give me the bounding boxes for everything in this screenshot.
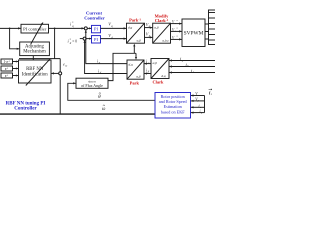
- delay block z^-1 (upper): [1, 66, 13, 71]
- block: RBF NN Identification: [19, 60, 52, 83]
- arrowhead up into Park-1: [133, 44, 135, 47]
- block: sin cos of flux angle: [76, 78, 108, 88]
- wire: i alpha into EKF: [191, 106, 205, 108]
- block: PI current q (blue): [92, 25, 101, 32]
- inverter rung 1: [209, 12, 216, 14]
- arrowhead down into Park: [135, 57, 137, 60]
- summing junction e_omega: [59, 72, 62, 75]
- block: Modify Clark inverse transform: [153, 23, 171, 43]
- wire: V beta into EKF: [191, 100, 205, 102]
- wire: sincos output elbow to transforms: [108, 53, 136, 80]
- svg-text:Controller: Controller: [14, 107, 37, 112]
- arrowhead of adaptation arrow (RBF): [48, 59, 51, 61]
- wire: adjusting to RBF vertical: [32, 56, 34, 60]
- block: PI controller: [21, 24, 49, 33]
- arrowhead ia: [169, 59, 172, 61]
- wire: i alpha Clark to Park: [144, 63, 151, 65]
- wire: PI1 to Park-1 (Vq): [101, 27, 127, 29]
- arrowhead into Adjusting Mechanism: [17, 48, 20, 50]
- wire: d junction to PI2: [86, 38, 91, 40]
- inverter rung 3: [209, 23, 216, 25]
- svg-text:based on EKF: based on EKF: [161, 109, 185, 114]
- arrowhead V beta: [150, 36, 153, 38]
- block: inverter (clipped at edge): [209, 10, 217, 45]
- wire: Vc*: [171, 38, 182, 40]
- svg-text:Controller: Controller: [84, 16, 105, 21]
- wire: theta into sincos box: [68, 83, 155, 100]
- arrowhead V beta EKF: [191, 100, 194, 102]
- wire: i beta into EKF: [191, 112, 205, 114]
- wire: SVPWM to inverter gate 2: [205, 31, 209, 33]
- block: PI current d (blue): [92, 36, 101, 43]
- arrowhead of adaptation arrow (PI): [41, 22, 43, 24]
- block: SVPWM: [182, 19, 205, 47]
- arrowhead ib: [169, 65, 172, 67]
- wire: ib from motor: [169, 66, 215, 68]
- wire: V alpha Park-1 to ModClark: [145, 27, 153, 29]
- svg-text:Identification: Identification: [22, 73, 48, 78]
- block: Park inverse transform: [127, 23, 145, 43]
- arrowhead i alpha: [144, 63, 147, 65]
- arrowhead delay3: [16, 75, 19, 77]
- wire: iq feedback from Park to q junction: [86, 30, 127, 63]
- delay block z^-1 (lower): [1, 73, 13, 78]
- svg-text:PI: PI: [94, 37, 98, 42]
- wire: delay1 to RBF: [13, 61, 19, 63]
- svg-text:Clark: Clark: [153, 80, 165, 85]
- wire: omega hat vertical from error junction: [59, 75, 61, 114]
- wire: down to error junction: [59, 59, 61, 72]
- inverter rung 6: [209, 39, 216, 41]
- arrowhead V alpha EKF: [191, 94, 194, 96]
- block: Adjusting Mechanism: [20, 42, 50, 56]
- summing junction q-axis: [84, 27, 87, 30]
- wire: SVPWM to inverter gate 3: [205, 38, 209, 40]
- adaptation arrow through RBF NN: [26, 59, 50, 85]
- svg-text:PI: PI: [94, 27, 98, 32]
- arrowhead Va*: [179, 23, 182, 25]
- arrowhead delay2: [16, 68, 19, 70]
- arrowhead id into d junction: [84, 40, 86, 43]
- wire: q junction to PI1: [87, 27, 91, 29]
- arrowhead into PI controller: [18, 27, 21, 29]
- arrowhead Vc*: [179, 38, 182, 40]
- wire: speed error input: [0, 27, 21, 29]
- svg-text:= 0: = 0: [72, 39, 77, 43]
- arrowhead i alpha EKF: [191, 106, 194, 108]
- summing junction d-axis: [83, 37, 86, 40]
- wire: delay3 to RBF: [13, 75, 19, 77]
- arrowhead into RBF right: [51, 72, 54, 74]
- arrowhead i beta EKF: [191, 112, 194, 114]
- arrowhead theta into sincos: [73, 82, 76, 84]
- wire: branch to Adjusting Mechanism: [10, 28, 20, 48]
- inverter rung 5: [209, 34, 216, 36]
- wire: u tap down: [54, 28, 56, 58]
- wire: id feedback from Park to d junction: [85, 40, 127, 73]
- wire: Vb*: [171, 30, 182, 32]
- wire: V beta Park-1 to ModClark: [145, 36, 153, 38]
- svg-text:RBF NN: RBF NN: [26, 67, 44, 72]
- wire: delay2 to RBF: [13, 68, 19, 70]
- arrowhead V alpha: [150, 27, 153, 29]
- wire: PI2 to Park-1 (Vd): [101, 38, 127, 40]
- wire: omega hat feedback line: [0, 113, 155, 115]
- svg-text:s: s: [211, 93, 212, 96]
- svg-text:Mechanism: Mechanism: [23, 50, 46, 55]
- arrowhead i beta: [144, 72, 147, 74]
- arrowhead Vd into Park-1: [124, 38, 127, 40]
- svg-text:ω: ω: [65, 65, 67, 68]
- svg-text:SVPWM: SVPWM: [184, 31, 204, 37]
- wire: iq* from PI controller to q summing junction: [49, 27, 85, 29]
- inverter rung 4: [209, 28, 216, 30]
- svg-text:sincos: sincos: [88, 79, 96, 83]
- wire: error into RBF NN: [52, 72, 59, 74]
- delay block 1-z^-1: [1, 59, 13, 64]
- node: u tap junction: [54, 28, 56, 30]
- node: input junction: [9, 28, 11, 30]
- arrowhead delay1: [16, 61, 19, 63]
- block: Park transform: [127, 60, 144, 79]
- svg-text:of Flux Angle: of Flux Angle: [81, 84, 103, 88]
- wire: Va*: [171, 23, 182, 25]
- wire: i beta Clark to Park: [144, 73, 151, 75]
- svg-text:Park: Park: [130, 81, 140, 86]
- arrowhead Vb*: [179, 30, 182, 32]
- wire: id*=0 into d junction: [80, 38, 83, 40]
- wire: SVPWM to inverter gate 1: [205, 23, 209, 25]
- svg-text:PI controller: PI controller: [23, 26, 47, 31]
- block: EKF estimator (blue): [155, 93, 191, 119]
- adaptation arrow through PI controller: [31, 23, 43, 44]
- wire: ia from motor: [169, 60, 215, 62]
- arrowhead ic: [169, 71, 172, 73]
- arrowhead into q summing junction: [82, 27, 85, 29]
- wire: V alpha into EKF: [191, 95, 205, 97]
- wire: EKF input spine: [204, 96, 206, 113]
- wire: horizontal bus above RBF: [19, 58, 60, 60]
- wire: ic from motor: [169, 72, 215, 74]
- arrowhead Vq into Park-1: [124, 27, 127, 29]
- block: Clark transform: [151, 59, 169, 79]
- wire: angle up into Park-1: [133, 46, 135, 54]
- inverter rung 2: [209, 17, 216, 19]
- arrowhead iq into q junction: [85, 30, 87, 33]
- wire: angle down into Park: [135, 53, 137, 57]
